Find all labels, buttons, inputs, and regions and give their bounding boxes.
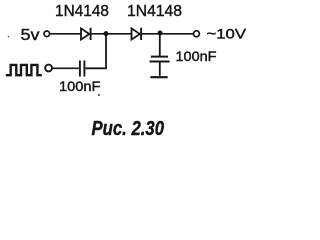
- terminal pulse input: [45, 65, 52, 72]
- node A junction of D1/D2/C1: [104, 31, 109, 36]
- wire D2 cathode to output terminal: [142, 33, 193, 35]
- wire node A down to lower rail: [86, 35, 107, 68]
- svg-text:100nF: 100nF: [59, 78, 101, 94]
- wire C2 to ground: [159, 62, 161, 76]
- capacitor C1 100nF (coupling): [80, 60, 85, 76]
- svg-text:Рис. 2.30: Рис. 2.30: [92, 118, 165, 140]
- terminal 5V input: [44, 31, 50, 37]
- capacitor C2 100nF (output filter): [150, 57, 170, 62]
- terminal output ~10V: [193, 31, 199, 37]
- svg-text:1N4148: 1N4148: [127, 3, 182, 20]
- svg-text:~10V: ~10V: [207, 26, 247, 42]
- speck artifact: [98, 94, 100, 96]
- wire pulse terminal to C1: [52, 67, 79, 69]
- square-wave source symbol: [6, 65, 42, 75]
- wire D1 cathode to D2 anode: [92, 33, 132, 35]
- node B junction of D2/C2/output: [158, 31, 163, 36]
- wire 5V terminal to D1 anode: [50, 33, 81, 35]
- svg-text:1N4148: 1N4148: [55, 3, 109, 20]
- svg-text:100nF: 100nF: [176, 48, 217, 64]
- wire node B down to C2: [159, 34, 161, 56]
- svg-text:5v: 5v: [21, 27, 40, 44]
- diode D1 1N4148: [81, 28, 91, 40]
- speck artifact near 5v: [8, 36, 10, 38]
- diode D2 1N4148: [132, 28, 142, 40]
- ground bar: [150, 76, 167, 78]
